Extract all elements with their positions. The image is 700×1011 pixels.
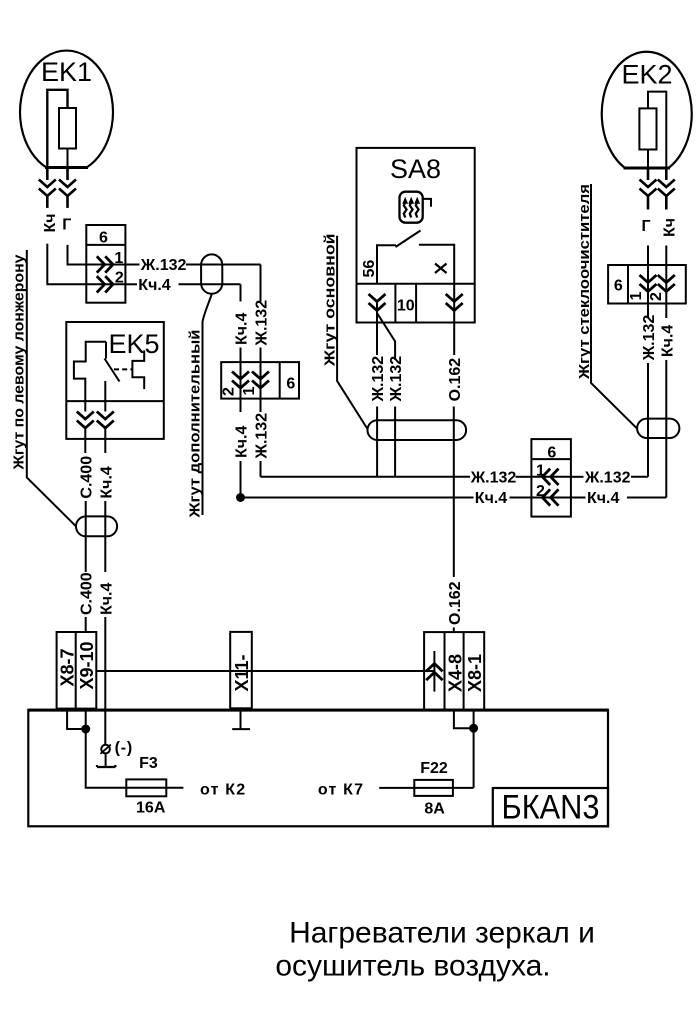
- svg-text:6: 6: [614, 278, 623, 295]
- switch SA8 box: [357, 148, 475, 323]
- svg-text:Ж.132: Ж.132: [641, 315, 658, 362]
- wire label Ж.132 (rotated) below mid connector: [254, 399, 271, 477]
- EK2 connector pin 1 chevron: [628, 265, 657, 304]
- svg-text:О.162: О.162: [447, 581, 464, 625]
- EK5 pin chevron left: [77, 412, 94, 429]
- svg-text:Кч: Кч: [42, 213, 59, 232]
- wire label Кч.4 (rotated) below EK2 connector: [659, 304, 676, 498]
- SA8 switch contacts: [377, 231, 454, 284]
- svg-text:БКАN3: БКАN3: [502, 789, 600, 827]
- svg-text:Жгут дополнительный: Жгут дополнительный: [187, 330, 204, 519]
- svg-text:Г: Г: [62, 217, 71, 234]
- EK5 dashed link: [114, 368, 132, 370]
- svg-text:6: 6: [547, 445, 556, 462]
- harness name Жгут по левому лонжерону: [11, 250, 76, 526]
- harness transition capsule (main harness): [368, 420, 467, 440]
- svg-text:2: 2: [221, 387, 238, 396]
- svg-text:(-): (-): [115, 740, 133, 757]
- harness transition capsule (wiper harness): [637, 419, 679, 438]
- svg-text:1: 1: [241, 387, 258, 396]
- junction node left: [81, 725, 90, 734]
- svg-text:от К7: от К7: [318, 782, 364, 799]
- heater EK1 (mirror heater) oval body: [20, 51, 113, 168]
- connector X8-7 / X9-10 block: [57, 632, 98, 709]
- svg-text:F22: F22: [420, 760, 448, 777]
- svg-text:О.162: О.162: [447, 358, 464, 402]
- X4 internal up chevron: [426, 651, 442, 692]
- wire Ж.132 vertical down to mid connector: [260, 265, 262, 302]
- svg-text:Кч.4: Кч.4: [138, 277, 171, 294]
- fuse F3 16A: [126, 755, 183, 817]
- svg-text:Кч: Кч: [662, 218, 679, 237]
- harness name Жгут дополнительный with underline and leader: [187, 294, 212, 519]
- EK2 heating element resistor: [639, 92, 666, 168]
- wire label Кч.4 (rotated) below mid connector: [234, 399, 251, 498]
- wire from Г to connector pin 1: [68, 245, 87, 265]
- EK5 switch blade: [105, 359, 120, 382]
- svg-text:Х9-10: Х9-10: [77, 641, 97, 689]
- wire X9-10 down to fuse F3: [86, 709, 127, 788]
- EK5 element outline: [74, 342, 106, 412]
- harness name Жгут стеклоочистителя: [576, 184, 637, 429]
- svg-text:Кч.4: Кч.4: [475, 490, 508, 507]
- svg-text:2: 2: [115, 269, 124, 286]
- svg-text:С.400: С.400: [78, 456, 95, 499]
- EK5 pin chevron right: [97, 412, 114, 429]
- wire Кч.4 vertical down to mid connector: [240, 284, 242, 301]
- EK5 moving wire: [104, 381, 106, 412]
- heater EK2 oval body: [602, 52, 692, 168]
- wire X4-8 to junction: [454, 710, 474, 728]
- svg-text:10: 10: [397, 298, 415, 315]
- SA8 right pin chevron: [446, 294, 463, 311]
- svg-text:6: 6: [99, 230, 108, 247]
- EK5 contact post: [105, 342, 107, 359]
- EK2 connector pin 2 chevron: [648, 265, 675, 304]
- mid connector block (additional harness): [221, 362, 299, 399]
- right block pin 2 row chevrons: [531, 483, 571, 506]
- svg-text:Ж.132: Ж.132: [140, 257, 187, 274]
- svg-text:Ж.132: Ж.132: [254, 300, 271, 347]
- svg-text:Х8-1: Х8-1: [465, 654, 485, 692]
- svg-text:Ж.132: Ж.132: [470, 469, 517, 486]
- Кч.4 horizontal bus row: [241, 490, 532, 507]
- svg-text:Х8-7: Х8-7: [58, 648, 78, 686]
- svg-text:1: 1: [536, 462, 545, 479]
- svg-text:Х4-8: Х4-8: [446, 654, 466, 692]
- junction node Кч.4: [236, 493, 245, 502]
- svg-text:Нагреватели зеркал и: Нагреватели зеркал и: [289, 917, 595, 950]
- svg-text:6: 6: [286, 376, 295, 393]
- svg-text:Кч.4: Кч.4: [234, 313, 251, 346]
- ground screw terminal (-): [97, 740, 133, 768]
- wire Ж.132 row from connector to vertical: [125, 257, 260, 274]
- EK1 heating element resistor: [47, 90, 76, 168]
- wire X8-7 to junction: [67, 709, 86, 729]
- SA8 heater icon: [400, 192, 432, 223]
- svg-text:SA8: SA8: [390, 154, 441, 184]
- block БКАНЗ outline: [28, 710, 608, 827]
- wires resume into capsule: [376, 407, 378, 477]
- svg-text:Кч.4: Кч.4: [659, 325, 676, 358]
- harness transition capsule (left): [76, 516, 117, 536]
- right mid connector block 6-pin: [531, 439, 571, 516]
- junction node right: [469, 724, 478, 733]
- EK2 connector arrows right pin: [658, 168, 675, 210]
- svg-text:2: 2: [536, 483, 545, 500]
- svg-text:Жгут основной: Жгут основной: [322, 233, 339, 367]
- svg-text:Г: Г: [641, 218, 650, 235]
- mid connector pin 2 wire and chevron: [221, 362, 250, 399]
- svg-text:осушитель воздуха.: осушитель воздуха.: [275, 950, 550, 983]
- EK2 connector block 6-pin: [608, 265, 686, 304]
- wire Кч from EK1 to connector pin 2: [47, 244, 86, 285]
- right block pin 1 row chevrons: [531, 462, 571, 485]
- EK2 connector arrows left pin: [640, 168, 657, 210]
- svg-text:EK5: EK5: [108, 329, 159, 359]
- wire С.400 below EK5: [84, 439, 86, 453]
- svg-text:Ж.132: Ж.132: [370, 356, 387, 403]
- svg-text:от К2: от К2: [200, 781, 246, 798]
- wire Ж.132 stub below SA8: [376, 301, 378, 355]
- svg-text:F3: F3: [139, 755, 158, 772]
- SA8 X mark: [435, 264, 447, 274]
- wire X8-1 down to fuse F22: [473, 710, 475, 788]
- wire Ж.132 diagonal branch: [377, 313, 395, 360]
- X11- stub terminator: [232, 708, 250, 729]
- harness name Жгут основной: [322, 233, 368, 429]
- svg-text:Жгут по левому лонжерону: Жгут по левому лонжерону: [11, 254, 28, 471]
- svg-text:2: 2: [648, 292, 665, 301]
- connector X4-8 / X8-1 block: [424, 632, 485, 710]
- EK1 connector arrows (detachable) left pin: [39, 168, 56, 208]
- svg-text:8А: 8А: [424, 801, 445, 818]
- connector X11- block: [230, 632, 252, 708]
- svg-text:Х11-: Х11-: [232, 654, 252, 691]
- БКАНЗ name box: [493, 788, 608, 827]
- connector block (EK1 to harness) 6-pin: [86, 225, 125, 303]
- svg-text:Кч.4: Кч.4: [98, 466, 115, 499]
- svg-text:Ж.132: Ж.132: [584, 469, 631, 486]
- svg-text:16А: 16А: [136, 800, 166, 817]
- svg-text:Ж.132: Ж.132: [388, 356, 405, 403]
- svg-text:Ж.132: Ж.132: [254, 413, 271, 460]
- relay EK5 (air dryer heater) box: [66, 322, 164, 439]
- wire Кч.4 below EK5: [104, 439, 106, 453]
- wires into EK2 connector: [647, 246, 649, 266]
- wire Ж.132 row right of block: [571, 469, 648, 486]
- wire О.162 below SA8: [453, 284, 455, 355]
- fuse F22 8A: [379, 760, 473, 818]
- SA8 bottom pin compartment: [357, 284, 475, 323]
- wire label Ж.132 (rotated) below EK2 connector: [641, 304, 658, 477]
- svg-text:56: 56: [361, 260, 378, 278]
- svg-text:Кч.4: Кч.4: [587, 490, 620, 507]
- SA8 pin 56 chevron: [369, 294, 386, 311]
- mid connector pin 1 wire and chevron: [241, 362, 269, 399]
- wire Кч.4 row right of block: [571, 490, 666, 507]
- Ж.132 horizontal bus row: [261, 469, 532, 486]
- pin 2 row with chevrons: [86, 269, 125, 292]
- bus row X9-10 to X4 chevron: [96, 670, 434, 672]
- wire Кч.4 row from connector: [125, 277, 240, 294]
- svg-text:1: 1: [114, 250, 123, 267]
- svg-text:EK2: EK2: [621, 60, 672, 90]
- EK5 thermal zigzag: [132, 350, 144, 389]
- pin 1 row with chevrons: [86, 250, 125, 273]
- svg-text:С.400: С.400: [78, 572, 95, 615]
- harness transition capsule (vertical): [201, 254, 222, 293]
- svg-text:1: 1: [628, 292, 645, 301]
- svg-text:Кч.4: Кч.4: [234, 426, 251, 459]
- EK1 connector arrows right pin: [59, 168, 76, 208]
- svg-text:Кч.4: Кч.4: [98, 583, 115, 616]
- svg-text:EK1: EK1: [41, 57, 92, 87]
